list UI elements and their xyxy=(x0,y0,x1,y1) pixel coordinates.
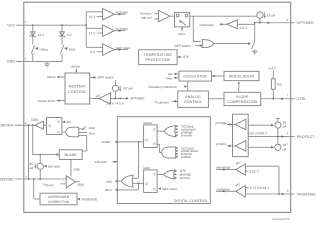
svg-text:soft start: soft start xyxy=(95,160,107,164)
svg-text:ISENSE: ISENSE xyxy=(0,177,14,181)
svg-text:power down: power down xyxy=(38,99,55,103)
svg-text:OVERPOWER: OVERPOWER xyxy=(48,195,70,199)
wire driver sense to ISENSE xyxy=(28,125,30,179)
comparator ton(max) 400 mV xyxy=(140,10,175,22)
flip-flop latch xyxy=(143,166,157,192)
svg-text:PROTECTION: PROTECTION xyxy=(146,58,171,62)
svg-text:Vth(ocp): Vth(ocp) xyxy=(43,182,54,187)
timer box xyxy=(175,12,190,36)
svg-text:DRV: DRV xyxy=(31,118,39,122)
OR gate G1 xyxy=(157,126,176,137)
svg-text:set: set xyxy=(66,120,70,124)
svg-text:VINSENSE: VINSENSE xyxy=(297,192,317,196)
svg-text:brownin: brownin xyxy=(181,134,192,138)
node soft start (into digital control) xyxy=(95,160,118,164)
svg-text:1.2 V / 4.5 V: 1.2 V / 4.5 V xyxy=(106,101,124,105)
current source 85 uA (soft start) xyxy=(29,155,43,179)
svg-text:OSCILLATOR: OSCILLATOR xyxy=(183,74,207,78)
wire blank feedback to gate xyxy=(79,135,87,151)
svg-text:0.72 V/0.84 V: 0.72 V/0.84 V xyxy=(250,186,270,190)
node Vctrl(lower) xyxy=(155,100,178,105)
svg-text:DIGITAL CONTROL: DIGITAL CONTROL xyxy=(174,199,208,203)
svg-text:mainshigh: mainshigh xyxy=(216,166,231,170)
svg-text:SLOPE: SLOPE xyxy=(236,95,249,99)
wire driver sense to blank xyxy=(33,125,60,156)
svg-text:protlow: protlow xyxy=(180,176,191,180)
svg-text:OPTIMER: OPTIMER xyxy=(297,21,314,25)
BLANK box xyxy=(59,150,82,160)
switch latch xyxy=(61,45,76,62)
ANALOG CONTROL box xyxy=(178,91,209,107)
svg-text:timer: timer xyxy=(178,32,186,36)
svg-text:0.92 V/0.88 V: 0.92 V/0.88 V xyxy=(248,131,268,135)
svg-text:CORRECTION: CORRECTION xyxy=(48,200,70,204)
node set (oscillator out) xyxy=(168,72,179,76)
flip-flop restart xyxy=(143,121,157,147)
comparator latch reset 5 V xyxy=(90,44,130,55)
zener diode 12 V xyxy=(30,25,46,44)
svg-text:latch reset: latch reset xyxy=(162,187,177,191)
OR gate G3 xyxy=(157,170,175,179)
OSCILLATOR box xyxy=(179,71,212,81)
svg-text:LEB: LEB xyxy=(74,168,80,172)
svg-text:restart: restart xyxy=(71,65,80,69)
comparator mainshigh 3.52 V xyxy=(216,161,279,175)
svg-text:01aaab298: 01aaab298 xyxy=(273,217,290,221)
switch on OPTIMER pin xyxy=(251,23,255,51)
svg-text:latch: latch xyxy=(69,48,76,52)
node OPP switch (out) xyxy=(90,76,114,80)
svg-text:17 µA: 17 µA xyxy=(267,13,276,17)
comparator VCCstart 21 V xyxy=(89,9,129,20)
wire timer output xyxy=(190,16,257,41)
node latch (net out) xyxy=(105,182,140,192)
node frequency reduction xyxy=(149,85,188,89)
comparator VCCstop 12 V xyxy=(89,25,128,36)
node power down (out) xyxy=(38,99,65,103)
OR gate stop xyxy=(106,142,144,187)
svg-text:latch reset: latch reset xyxy=(115,46,130,50)
node soft start (into current source) xyxy=(44,165,60,169)
wire PROTECT net xyxy=(248,131,291,138)
switch clamp xyxy=(31,45,48,62)
svg-text:VINSENSE: VINSENSE xyxy=(81,197,97,201)
OR gate OPP switch xyxy=(174,40,251,48)
svg-text:12 V: 12 V xyxy=(89,31,96,35)
node fmax (oscillator out) xyxy=(166,76,179,81)
buffer DRV xyxy=(31,118,46,129)
G1 inputs VCCstop/overpower/prothigh/brownin xyxy=(175,125,197,138)
current source 17 uA xyxy=(257,12,276,23)
svg-text:MODULATION: MODULATION xyxy=(229,74,254,78)
LEB box xyxy=(71,160,80,176)
svg-text:stop: stop xyxy=(89,126,95,130)
svg-text:12 V: 12 V xyxy=(38,33,45,37)
current source 107 uA (optimer) xyxy=(112,80,133,99)
wire VINSENSE net xyxy=(245,166,290,195)
current source 107 uA xyxy=(248,143,288,151)
svg-text:S: S xyxy=(153,128,155,132)
flip-flop driver xyxy=(47,118,62,135)
svg-text:107 µA: 107 µA xyxy=(122,87,133,91)
G2 inputs VCCstart/power down/brownin/protlow xyxy=(175,146,198,159)
svg-text:overpower: overpower xyxy=(199,23,215,27)
svg-text:OTP: OTP xyxy=(183,55,190,59)
svg-text:protlow: protlow xyxy=(181,155,192,159)
node protlow (out) xyxy=(216,142,235,147)
svg-text:CONTROL: CONTROL xyxy=(184,100,202,104)
svg-text:PROTECT: PROTECT xyxy=(297,135,316,139)
svg-text:3.52 V: 3.52 V xyxy=(250,170,260,174)
svg-text:mainslow: mainslow xyxy=(217,187,231,191)
svg-text:COMPENSATION: COMPENSATION xyxy=(227,100,258,104)
node VINSENSE (into overpower correction) xyxy=(77,197,97,201)
svg-text:restart: restart xyxy=(101,140,110,144)
svg-text:OPP switch: OPP switch xyxy=(174,44,191,48)
svg-text:2.9 V: 2.9 V xyxy=(240,26,248,30)
AND gate G2 xyxy=(157,144,176,158)
svg-text:frequency reduction: frequency reduction xyxy=(149,85,177,89)
pin VCC 1 xyxy=(7,20,33,28)
svg-text:fmax: fmax xyxy=(166,76,173,81)
svg-text:7k0: 7k0 xyxy=(277,83,282,87)
node restart (into restart control) xyxy=(71,65,80,74)
svg-text:6.4 V: 6.4 V xyxy=(269,66,277,70)
svg-text:protlow: protlow xyxy=(216,142,227,146)
comparator mainslow 0.72 V/0.84 V xyxy=(216,183,270,198)
SLOPE COMPENSATION box xyxy=(208,81,260,106)
node clamp (out) xyxy=(47,75,65,79)
OVERPOWER CORRECTION box xyxy=(34,179,77,205)
pin PROTECT 6 xyxy=(287,132,315,139)
drawing id xyxy=(273,217,290,221)
svg-text:Vctrl(lower): Vctrl(lower) xyxy=(155,100,170,105)
svg-text:fmax: fmax xyxy=(89,131,96,136)
svg-text:VCCstart: VCCstart xyxy=(115,11,128,15)
pin DRIVER 3 xyxy=(0,121,35,128)
svg-text:OPTIMER: OPTIMER xyxy=(130,97,145,101)
current source 10 uA xyxy=(248,118,287,144)
node fmax (gate input) xyxy=(79,131,96,136)
svg-text:clamp: clamp xyxy=(39,48,48,52)
svg-text:DRIVER: DRIVER xyxy=(0,124,13,128)
wire comparator sense bus xyxy=(86,12,102,48)
comparator OCP xyxy=(43,176,84,188)
wire oscillator-analog control xyxy=(187,81,189,91)
svg-text:VCC: VCC xyxy=(7,23,15,27)
pin CTRL 7 xyxy=(287,94,307,102)
svg-text:BLANK: BLANK xyxy=(65,153,78,157)
node set (driver FF) xyxy=(62,120,70,124)
node restart (net out) xyxy=(101,140,143,144)
node 6.4 V xyxy=(269,66,277,79)
AND gate driver reset xyxy=(62,127,79,137)
svg-text:latch: latch xyxy=(105,188,112,192)
svg-text:GND: GND xyxy=(7,60,16,64)
svg-text:ANALOG: ANALOG xyxy=(185,95,201,99)
svg-text:S: S xyxy=(153,173,155,177)
node stop (gate input) xyxy=(79,125,95,130)
svg-text:CTRL: CTRL xyxy=(297,97,307,101)
pin GND 2 xyxy=(7,56,62,63)
comparator overpower 2.9 V xyxy=(199,20,255,30)
node latch reset (into latch FF) xyxy=(158,187,177,191)
svg-text:stop: stop xyxy=(106,179,112,183)
zener diode 9 V xyxy=(59,25,73,44)
svg-text:clamp: clamp xyxy=(47,75,56,79)
G3 inputs OTP/prothigh/protlow xyxy=(174,169,192,180)
ground (OPTIMER switch) xyxy=(252,51,258,54)
RESTART CONTROL box xyxy=(65,73,90,104)
comparator OPTIMER sense 1.2 V / 4.5 V xyxy=(90,93,146,106)
pin VINSENSE 5 xyxy=(287,189,316,196)
TEMPERATURE PROTECTION box xyxy=(139,50,190,65)
IC boundary box xyxy=(24,2,291,212)
MODULATION box xyxy=(212,71,260,80)
svg-text:21 V: 21 V xyxy=(89,15,96,19)
svg-text:OPP switch: OPP switch xyxy=(97,76,114,80)
DIGITAL CONTROL box xyxy=(117,117,210,204)
wire VCC rail xyxy=(32,24,87,26)
svg-text:400 mV: 400 mV xyxy=(141,16,153,20)
svg-text:soft start: soft start xyxy=(48,165,60,169)
ground xyxy=(44,61,50,67)
pin OPTIMER 8 xyxy=(287,18,314,25)
wire CTRL net xyxy=(261,97,291,100)
svg-text:CONTROL: CONTROL xyxy=(68,90,86,94)
pin ISENSE 4 xyxy=(0,175,66,181)
svg-text:TEMPERATURE: TEMPERATURE xyxy=(144,53,173,57)
svg-text:S: S xyxy=(57,120,59,124)
svg-text:RESTART: RESTART xyxy=(69,85,87,89)
wire OPTIMER net xyxy=(254,21,291,24)
svg-text:prothigh: prothigh xyxy=(216,121,228,125)
resistor 7k0 xyxy=(271,79,282,99)
svg-text:OCP: OCP xyxy=(77,183,84,187)
svg-text:VCCstop: VCCstop xyxy=(115,27,128,31)
node prothigh (out) xyxy=(216,121,236,126)
PROTECT window comparator box xyxy=(233,114,249,157)
